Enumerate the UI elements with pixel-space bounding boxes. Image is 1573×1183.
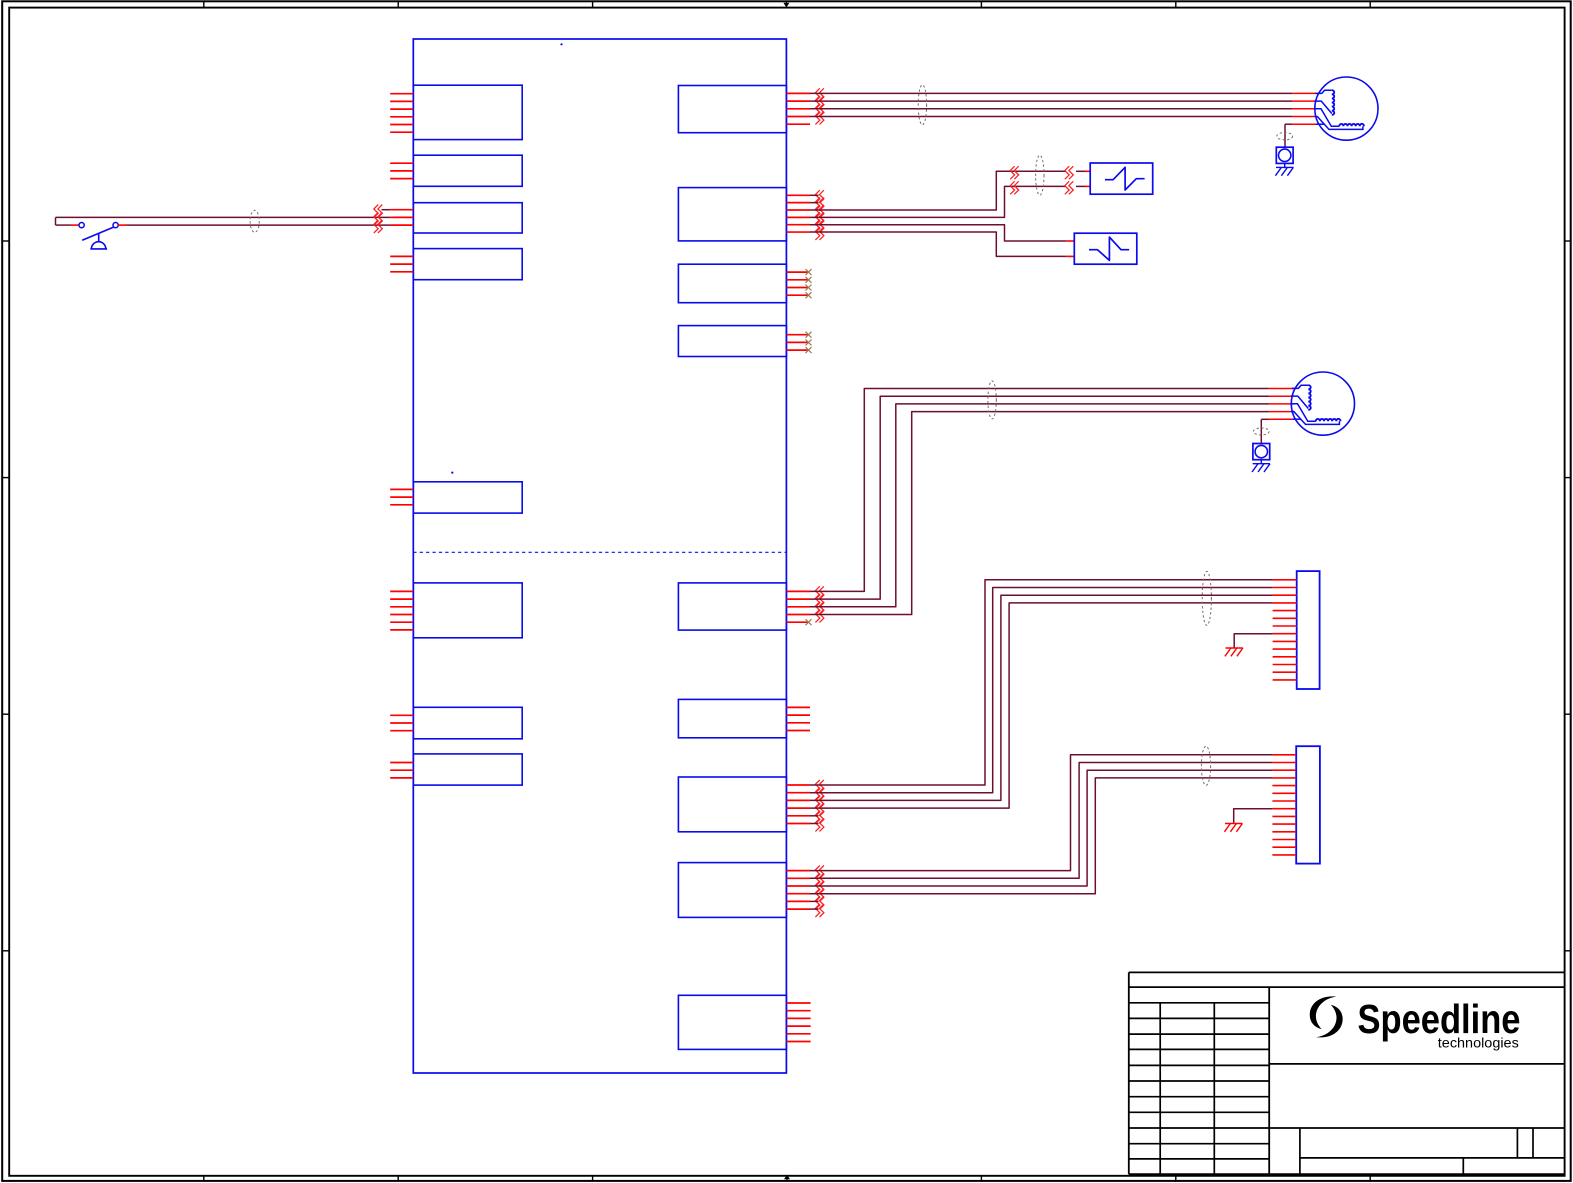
cable marker on M1 bundle [918, 85, 926, 125]
harness wire P16.4 to J2.4 [810, 778, 1272, 894]
harness wire P15.3 to J1.3 [810, 595, 1273, 800]
U1 port P6 (left) [390, 583, 522, 638]
harness wire P16.3 to J2.3 [810, 770, 1272, 886]
wire P10 pin5 to VR2 upper [810, 225, 1066, 241]
entry marks at P13 [815, 586, 824, 622]
U1 port P1 (left) [390, 85, 522, 139]
stub wire P3 pin1 [382, 209, 391, 211]
wire from S1 to U1 P3 pin3 [118, 224, 126, 226]
motor M1 wire 1 [810, 92, 1292, 94]
U1 port P16 (right, J2 harness) [678, 863, 810, 918]
svg-text:technologies: technologies [1438, 1036, 1519, 1051]
entry marks at P10 [815, 190, 824, 240]
cable marker on J2 harness [1201, 746, 1210, 785]
border zone ticks top edge [204, 1, 1370, 7]
mid-route entry marks on VR1 pair [1010, 166, 1019, 194]
controller module U1 outline [413, 39, 786, 1073]
J2 shield wire to ground [1234, 809, 1273, 824]
J1 chassis ground [1225, 648, 1243, 656]
cable marker on M2 bundle [988, 381, 996, 419]
M2 shield pigtail wire [1261, 419, 1292, 443]
M1 chassis ground [1275, 163, 1293, 175]
connector J2 [1272, 746, 1319, 863]
entry marks at U1 P3 [374, 205, 383, 233]
entry marks at P9 [815, 88, 824, 124]
motor M2 wire 4 [810, 412, 1269, 615]
motor M2 wire 1 [810, 389, 1269, 592]
U1 port P15 (right, J1 harness) [678, 777, 810, 832]
switch S1 actuator stem [98, 234, 100, 242]
M1 shield pigtail wire [1285, 124, 1316, 147]
wire lower run left segment [56, 224, 72, 226]
no-connect mark P13 pin5 [806, 619, 812, 625]
title block right cells [1269, 1064, 1564, 1174]
surge suppressor VR2 [1074, 233, 1137, 264]
M2 pigtail cable marker [1253, 428, 1269, 435]
wire pair join at far left [55, 217, 57, 225]
motor M2 wire 2 [810, 396, 1269, 599]
entry marks before VR1 [1065, 166, 1074, 194]
cable marker on VR1 pair [1036, 155, 1044, 195]
connector J1 [1273, 571, 1320, 689]
motor M1 wire 2 [810, 100, 1292, 102]
border zone ticks right edge [1565, 241, 1571, 951]
cable marker on J1 harness [1202, 571, 1211, 625]
surge suppressor VR1 [1090, 163, 1153, 194]
M1 shield connector [1276, 147, 1293, 163]
U1 port P8 (left) [390, 754, 522, 785]
bottom centering arrow [784, 1175, 790, 1182]
no-connect marks P11 [806, 269, 812, 298]
title block revision table [1129, 987, 1269, 1174]
switch S1 lever [82, 227, 113, 240]
stub wires P16 pins 5-6 [810, 900, 819, 902]
U1 port P4 (left) [390, 249, 522, 280]
harness wire P15.2 to J1.2 [810, 588, 1273, 793]
entry marks at P16 [815, 866, 824, 918]
cable marker on switch pair [250, 210, 259, 232]
stub wires P15 pins 5-6 [810, 815, 819, 817]
wire P10 pin3 to VR1 upper [810, 171, 1066, 210]
harness wire P16.2 to J2.2 [810, 763, 1272, 879]
title block frame [1129, 972, 1565, 1174]
U1 port P7 (left) [390, 707, 522, 739]
wire P10 pin4 to VR1 lower [810, 186, 1066, 217]
U1 port P9 (right, motor M1 drive) [678, 86, 810, 133]
border zone ticks left edge [2, 241, 9, 951]
dashed section divider inside U1 [413, 551, 786, 553]
J1 shield wire to ground [1234, 634, 1272, 648]
switch S1 contact b [113, 223, 118, 228]
motor M2 [1290, 372, 1354, 435]
stub wires P10 pins 1-2 [810, 194, 819, 196]
U1 port P3 (left, foot-switch input) [390, 203, 522, 233]
motor M1 wire 4 [810, 116, 1292, 118]
plot artifact dot B [451, 472, 453, 474]
wire upper run to U1 P3 pin2 [56, 216, 391, 218]
motor M2 wire 3 [810, 404, 1269, 607]
harness wire P16.1 to J2.1 [810, 755, 1272, 871]
U1 port P10 (right, suppressor feeds) [678, 188, 810, 241]
entry marks at P15 [815, 780, 824, 832]
M2 shield connector [1253, 444, 1270, 460]
M1 pigtail cable marker [1277, 133, 1293, 140]
harness wire P15.4 to J1.4 [810, 603, 1273, 808]
Speedline logo icon [1310, 996, 1343, 1037]
motor M1 [1314, 77, 1378, 140]
U1 port P2 (left) [390, 155, 522, 186]
switch S1 contact a [79, 223, 84, 228]
U1 port P14 (right, spare) [678, 699, 810, 737]
top centering arrow [783, 1, 789, 7]
M2 chassis ground [1252, 460, 1270, 472]
motor M1 wire 3 [810, 108, 1292, 110]
U1 port P12 (right, unused) [678, 326, 807, 357]
J2 chassis ground [1224, 824, 1242, 832]
wire lower red segment at switch [71, 224, 79, 226]
plot artifact dot A [560, 43, 562, 45]
no-connect marks P12 [806, 332, 812, 353]
harness wire P15.1 to J1.1 [810, 580, 1273, 785]
border zone ticks bottom edge [204, 1176, 1370, 1181]
wire P10 pin6 to VR2 lower [810, 232, 1066, 256]
U1 port P17 (right, spare) [678, 995, 810, 1049]
switch S1 actuator dome [90, 242, 107, 249]
U1 port P13 (right, motor M2 drive) [678, 583, 810, 630]
U1 port P5 (left) [390, 482, 522, 513]
U1 port P11 (right, unused) [678, 264, 807, 303]
